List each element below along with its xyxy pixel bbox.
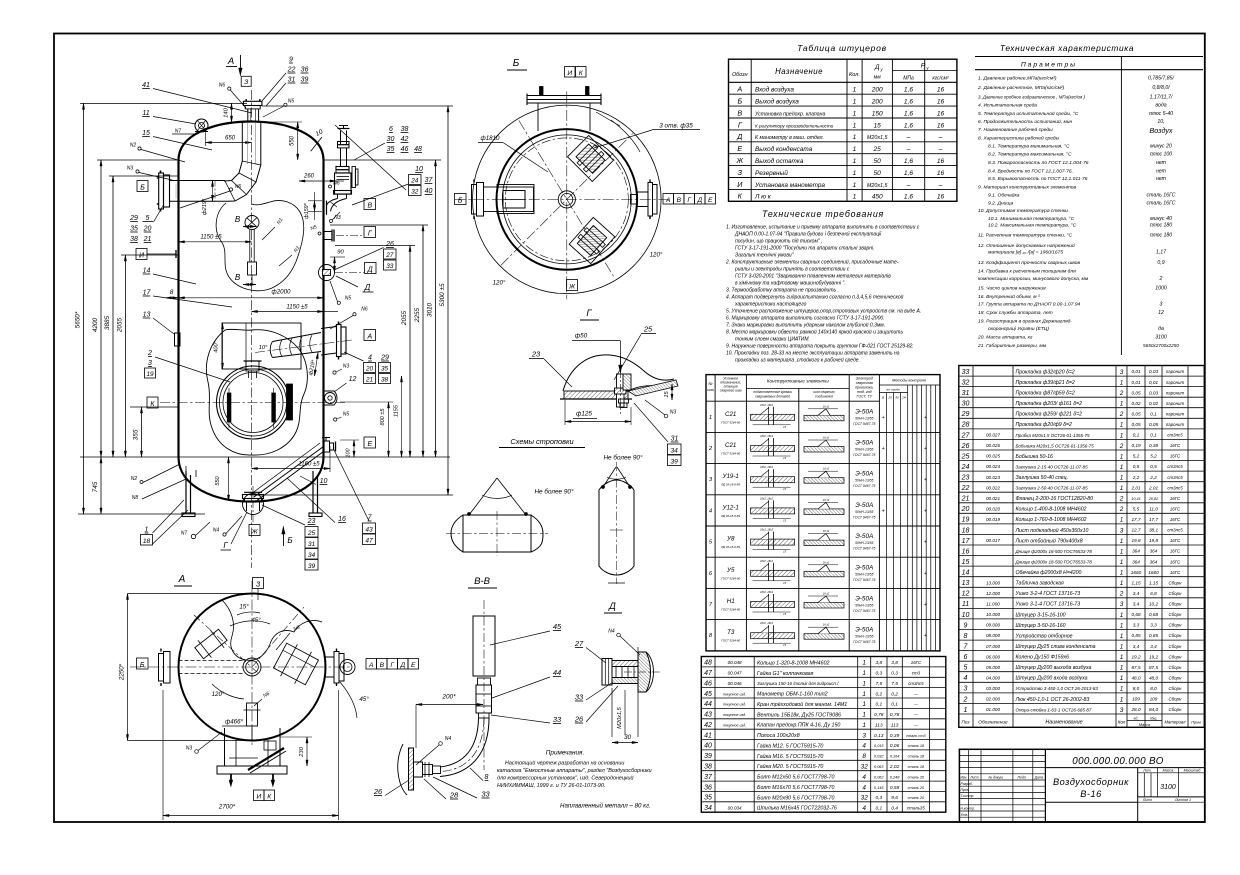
svg-text:Днище ф2000х 18-500 ГОСТ6533-: Днище ф2000х 18-500 ГОСТ6533-78	[1015, 560, 1093, 565]
svg-text:Поз: Поз	[962, 719, 971, 724]
svg-text:1: 1	[1120, 644, 1124, 651]
svg-text:Сборн: Сборн	[1169, 707, 1183, 712]
svg-text:11: 11	[962, 601, 969, 608]
svg-text:сварного шва: сварного шва	[720, 389, 742, 393]
pipe diameter Ф159	[304, 192, 322, 220]
svg-text:16±2, 16±2: 16±2, 16±2	[760, 590, 774, 594]
svg-text:Штуцер Ду25 слива конденсата: Штуцер Ду25 слива конденсата	[1016, 644, 1096, 650]
svg-text:03.000: 03.000	[986, 686, 1000, 691]
condensate pipe inside vessel	[251, 443, 324, 501]
svg-text:35: 35	[387, 146, 395, 153]
svg-text:19: 19	[146, 371, 154, 378]
svg-text:29: 29	[961, 411, 970, 418]
view А label ИК bottom	[254, 790, 275, 801]
svg-text:Схемы строповки: Схемы строповки	[510, 437, 573, 446]
svg-text:26: 26	[373, 787, 383, 796]
svg-text:Сборн: Сборн	[1169, 602, 1183, 607]
view Б label 3 отв Ф35	[594, 123, 700, 149]
svg-text:25: 25	[873, 146, 882, 153]
svg-text:27: 27	[961, 432, 971, 439]
svg-text:Э-50А: Э-50А	[855, 596, 873, 603]
svg-text:Изм: Изм	[961, 776, 968, 780]
sling scheme note upper	[603, 454, 643, 462]
deflector plate item 17	[222, 323, 301, 369]
parts list lower-left (items 34-48) grid	[701, 657, 946, 813]
svg-text:Дата: Дата	[1034, 776, 1044, 780]
svg-text:минус 40: минус 40	[1150, 216, 1172, 222]
svg-text:16ГС: 16ГС	[1170, 496, 1181, 501]
svg-text:ст3пс5: ст3пс5	[1167, 433, 1183, 438]
view Б centrelines	[455, 91, 671, 299]
technical requirements text	[725, 225, 921, 364]
svg-text:1: 1	[1120, 453, 1124, 460]
svg-text:–: –	[938, 134, 943, 141]
svg-text:3: 3	[1120, 707, 1124, 714]
svg-text:материала [в] ₂₀ /[в] = 19: материала [в] ₂₀ /[в] = 1960/1675	[988, 250, 1063, 256]
svg-text:Не более 90°: Не более 90°	[603, 454, 643, 462]
svg-text:И: И	[737, 180, 743, 189]
svg-text:2: 2	[1119, 506, 1124, 513]
svg-text:–: –	[906, 134, 911, 141]
svg-text:4: 4	[862, 774, 866, 781]
svg-text:шва: шва	[707, 388, 714, 392]
svg-text:Болт М20х90 5,6 ГОСТ7798-70: Болт М20х90 5,6 ГОСТ7798-70	[757, 795, 835, 801]
svg-text:28,0: 28,0	[1130, 707, 1141, 712]
svg-text:ст3пс5: ст3пс5	[1167, 475, 1183, 480]
svg-text:—: —	[913, 712, 919, 717]
svg-text:ГОСТ 5264-80: ГОСТ 5264-80	[721, 452, 740, 456]
svg-text:25: 25	[887, 396, 892, 400]
svg-text:С21: С21	[725, 411, 736, 418]
manometer symbol inside	[245, 216, 259, 285]
svg-text:44: 44	[553, 668, 561, 677]
svg-text:0,85: 0,85	[1149, 633, 1159, 638]
svg-text:0,03: 0,03	[1149, 390, 1159, 395]
view Б safety valve nozzle rotated	[568, 136, 614, 182]
svg-text:паронит: паронит	[1166, 411, 1185, 416]
svg-text:33: 33	[481, 790, 490, 799]
svg-text:ф466*: ф466*	[225, 719, 243, 726]
svg-text:плюс 100: плюс 100	[1150, 152, 1172, 158]
svg-text:Болт М12х50 5,6 ГОСТ7798-70: Болт М12х50 5,6 ГОСТ7798-70	[757, 775, 835, 781]
svg-text:Кольцо 1-400-8-1008 МН4602: Кольцо 1-400-8-1008 МН4602	[1016, 507, 1087, 513]
svg-text:16: 16	[962, 548, 970, 555]
svg-text:3100: 3100	[1160, 784, 1176, 791]
svg-text:1: 1	[862, 691, 866, 698]
svg-text:Ушко 3-2-4 ГОСТ 13716-73: Ушко 3-2-4 ГОСТ 13716-73	[1016, 591, 1081, 597]
svg-text:1: 1	[862, 722, 866, 729]
svg-text:0,1: 0,1	[891, 702, 898, 708]
view А wavy section через manhole	[222, 600, 322, 660]
manhole К reinforcing pad wavy outline	[206, 329, 307, 455]
svg-text:3010: 3010	[427, 302, 434, 317]
svg-text:50НН-13/55: 50НН-13/55	[855, 635, 873, 639]
svg-text:+: +	[924, 602, 927, 608]
svg-text:+: +	[882, 415, 885, 421]
svg-text:11. Расчетная температура стен: 11. Расчетная температура стенки, °С	[978, 233, 1072, 239]
svg-text:2055: 2055	[401, 310, 408, 326]
svg-text:каталога "Емкостные аппараты",: каталога "Емкостные аппараты", раздел "В…	[497, 768, 652, 774]
inlet nozzle А front view	[270, 322, 346, 360]
svg-text:ГОСТ 9467-75: ГОСТ 9467-75	[853, 453, 875, 457]
svg-text:Назначение: Назначение	[775, 67, 823, 76]
svg-text:0,063: 0,063	[874, 765, 884, 769]
svg-text:Манометр ОБМ-1-160 тип2: Манометр ОБМ-1-160 тип2	[757, 692, 828, 698]
svg-text:0,03: 0,03	[1149, 369, 1159, 374]
svg-text:1: 1	[1120, 538, 1124, 545]
svg-text:16: 16	[937, 170, 945, 177]
svg-text:9: 9	[964, 622, 968, 629]
detail Г dimension 15 and mark N3	[645, 384, 676, 418]
view Б arc arrow upper right	[596, 112, 640, 152]
svg-text:Кол.: Кол.	[849, 72, 860, 78]
svg-text:87,5: 87,5	[1131, 665, 1141, 670]
svg-text:00.025: 00.025	[986, 454, 1000, 459]
svg-text:ф125: ф125	[576, 411, 592, 418]
svg-text:1: 1	[1120, 612, 1124, 619]
svg-text:46: 46	[704, 681, 712, 688]
nozzle Е valve outside shell	[322, 437, 336, 452]
svg-text:25: 25	[643, 325, 653, 334]
view В-В flange and fitting at wall	[398, 744, 441, 795]
svg-text:3 отв. ф35: 3 отв. ф35	[659, 123, 693, 130]
dimension 5650 overall height	[75, 103, 85, 514]
svg-text:+: +	[924, 540, 927, 546]
svg-text:Сборн: Сборн	[1169, 591, 1183, 596]
svg-text:Ж: Ж	[250, 528, 258, 535]
svg-text:ГОСТ 9467-75: ГОСТ 9467-75	[853, 515, 875, 519]
view direction В lower	[235, 273, 256, 286]
svg-text:–: –	[938, 146, 943, 153]
svg-text:50НН-13/55: 50НН-13/55	[855, 510, 873, 514]
svg-text:15: 15	[664, 391, 670, 398]
svg-text:ГОСТ 9467-75: ГОСТ 9467-75	[853, 422, 875, 426]
dimension 550 dome height	[262, 122, 302, 160]
svg-text:Гайка М16. 5 ГОСТ5915-70: Гайка М16. 5 ГОСТ5915-70	[757, 753, 823, 760]
weld metal note	[560, 803, 651, 810]
svg-text:0,015: 0,015	[874, 744, 884, 748]
svg-text:Установка манометра: Установка манометра	[754, 182, 825, 189]
svg-text:32: 32	[411, 188, 419, 195]
svg-text:16. Внутренний объем, м ³: 16. Внутренний объем, м ³	[978, 293, 1040, 300]
svg-text:35: 35	[704, 795, 712, 802]
view Б angle labels 120	[493, 252, 663, 287]
svg-text:11,0: 11,0	[1149, 507, 1158, 512]
svg-text:200*: 200*	[441, 694, 456, 701]
svg-text:35: 35	[381, 365, 389, 372]
svg-text:2: 2	[1159, 276, 1163, 282]
svg-text:9.1. Обечайка: 9.1. Обечайка	[988, 191, 1020, 198]
svg-text:паронит: паронит	[1166, 401, 1185, 406]
svg-text:ст3пс5: ст3пс5	[908, 681, 924, 686]
svg-text:вода: вода	[1155, 103, 1166, 109]
svg-text:+: +	[882, 446, 885, 452]
svg-text:В: В	[367, 202, 372, 209]
svg-text:2: 2	[1119, 496, 1124, 503]
svg-text:ГОСТ 5264-80: ГОСТ 5264-80	[721, 576, 740, 580]
svg-text:0,4: 0,4	[891, 806, 898, 812]
svg-text:5,2: 5,2	[1150, 454, 1157, 459]
surface mark N6 top	[219, 83, 246, 109]
svg-text:43: 43	[704, 712, 712, 719]
svg-text:16ГС: 16ГС	[911, 660, 922, 665]
label box З top	[241, 76, 251, 86]
svg-text:36: 36	[704, 784, 712, 791]
title block document number	[1072, 756, 1164, 767]
svg-text:16±2, 16±2: 16±2, 16±2	[760, 434, 774, 438]
svg-text:0,1: 0,1	[875, 806, 882, 812]
svg-text:2. Конструктивные элементы сва: 2. Конструктивные элементы сварных соеди…	[725, 259, 899, 266]
svg-text:84,0: 84,0	[1149, 707, 1159, 712]
view А shell circle	[179, 594, 326, 741]
svg-text:сталь 16ГС: сталь 16ГС	[1147, 192, 1176, 198]
svg-text:сталь 18: сталь 18	[908, 755, 925, 759]
svg-text:38: 38	[704, 764, 712, 771]
view Б outer sling circle	[473, 105, 662, 294]
label Ж box and Г view arrow bottom	[221, 512, 293, 550]
svg-text:1: 1	[853, 182, 857, 189]
svg-text:05.000: 05.000	[986, 665, 1000, 670]
svg-text:0,19: 0,19	[1131, 443, 1141, 448]
vessel centreline	[251, 90, 253, 568]
svg-text:17,7: 17,7	[1149, 517, 1159, 522]
svg-text:Бобышка М20х1,5 ОСТ26-01-1356-: Бобышка М20х1,5 ОСТ26-01-1356-75	[1016, 443, 1095, 448]
svg-text:0,1: 0,1	[1150, 433, 1157, 438]
svg-text:Сборн: Сборн	[1169, 697, 1183, 702]
dimension 355	[130, 407, 179, 457]
callout 26 27 33 stack	[334, 241, 396, 270]
detail Г callout 25	[614, 325, 656, 381]
svg-text:21: 21	[961, 496, 970, 503]
svg-text:5. Температура испытательной с: 5. Температура испытательной среды, °С	[978, 110, 1079, 117]
svg-text:21. Габаритные размеры, мм: 21. Габаритные размеры, мм	[977, 343, 1047, 349]
pipe diameter Ф219 nozzle Б	[202, 181, 214, 216]
svg-text:00.023: 00.023	[986, 475, 1000, 480]
svg-text:N4: N4	[608, 629, 615, 635]
svg-text:9.2. Днища: 9.2. Днища	[988, 200, 1014, 206]
svg-text:1,6: 1,6	[904, 170, 913, 177]
svg-text:покупное изд.: покупное изд.	[723, 703, 746, 707]
detail Г dome section shape	[560, 355, 678, 399]
svg-text:1: 1	[964, 707, 968, 714]
svg-text:36: 36	[301, 67, 309, 74]
svg-text:минус 20: минус 20	[1150, 143, 1172, 149]
svg-text:48: 48	[704, 660, 712, 667]
svg-text:06.000: 06.000	[986, 654, 1000, 659]
dimension 2255	[414, 225, 424, 457]
svg-text:10,2: 10,2	[1149, 602, 1159, 607]
svg-text:0,164: 0,164	[890, 755, 900, 759]
svg-text:паронит: паронит	[1166, 369, 1185, 374]
svg-text:1150 ±5: 1150 ±5	[286, 305, 308, 311]
svg-text:16ГС: 16ГС	[1170, 443, 1181, 448]
svg-text:Д: Д	[608, 601, 616, 612]
svg-text:нтд, год: нтд, год	[857, 390, 872, 394]
svg-text:50НН-13/55: 50НН-13/55	[855, 541, 873, 545]
svg-text:1000: 1000	[1155, 286, 1167, 292]
svg-text:1: 1	[853, 194, 857, 201]
svg-text:0,5: 0,5	[1133, 464, 1140, 469]
svg-text:1: 1	[862, 681, 866, 688]
svg-text:Ж: Ж	[736, 156, 744, 165]
svg-text:Э-50А: Э-50А	[855, 564, 873, 571]
view Б bottom label Ж	[567, 280, 578, 291]
svg-text:0,05: 0,05	[1131, 422, 1141, 427]
svg-text:1660: 1660	[1148, 570, 1159, 575]
surface mark N2 left upper	[130, 143, 185, 163]
svg-text:6: 6	[389, 126, 393, 133]
svg-text:00.019: 00.019	[986, 517, 1000, 522]
svg-text:1: 1	[853, 99, 857, 106]
svg-text:Таблица штуцеров: Таблица штуцеров	[797, 43, 887, 53]
svg-text:Г: Г	[390, 662, 394, 669]
svg-text:N6: N6	[361, 307, 368, 313]
svg-text:16: 16	[937, 87, 945, 94]
svg-text:Сборн: Сборн	[1169, 623, 1183, 628]
svg-text:Э-50А: Э-50А	[855, 408, 873, 415]
svg-text:N5: N5	[345, 296, 352, 302]
svg-text:16: 16	[338, 516, 346, 523]
svg-text:Пробка М20х1,5 ОСТ26-01-1355-7: Пробка М20х1,5 ОСТ26-01-1355-75	[1016, 433, 1091, 438]
svg-text:Гайка М20. 5 ГОСТ5915-70: Гайка М20. 5 ГОСТ5915-70	[757, 763, 823, 770]
svg-text:Электрод: Электрод	[856, 377, 873, 381]
svg-text:32: 32	[861, 795, 869, 802]
svg-text:Штуцер Ду200 выхода воздуха: Штуцер Ду200 выхода воздуха	[1016, 665, 1092, 671]
svg-text:7,5: 7,5	[875, 681, 882, 687]
svg-text:3,8: 3,8	[875, 660, 882, 666]
svg-text:сталь 20: сталь 20	[908, 796, 925, 800]
view Б left nozzle Б	[455, 180, 535, 220]
svg-text:Выход остатка: Выход остатка	[755, 157, 804, 165]
svg-text:—: —	[913, 723, 919, 728]
svg-text:N7: N7	[181, 531, 188, 537]
view А support base plates	[217, 728, 287, 787]
svg-text:Сборн: Сборн	[1169, 633, 1183, 638]
dimension 1150 upper	[179, 235, 252, 243]
svg-text:3. Термообработку аппарата не: 3. Термообработку аппарата не производит…	[726, 288, 839, 294]
svg-text:Загальні технічні умови": Загальні технічні умови"	[735, 253, 794, 259]
svg-text:2. Давление расчетное, МПа(кгс: 2. Давление расчетное, МПа(кгс/см²)	[977, 85, 1065, 91]
svg-text:охоронпраці України (ЕТЦ): охоронпраці України (ЕТЦ)	[988, 326, 1049, 332]
svg-text:3,3: 3,3	[1133, 623, 1140, 628]
svg-text:8,0: 8,0	[1150, 686, 1157, 691]
svg-text:39: 39	[308, 563, 316, 570]
svg-text:N8: N8	[132, 495, 139, 501]
detail Г callout stack 31 34 39	[634, 403, 681, 466]
nameplate item 13 on shell	[175, 333, 181, 346]
svg-text:08.000: 08.000	[986, 633, 1000, 638]
svg-text:Ж: Ж	[568, 283, 576, 290]
svg-text:Б: Б	[140, 662, 145, 669]
svg-text:1: 1	[1120, 432, 1124, 439]
svg-text:8: 8	[485, 774, 489, 781]
svg-text:10. Прокладки поз. 28-33 на м: 10. Прокладки поз. 28-33 на месте эксплу…	[726, 351, 900, 357]
svg-text:2250*: 2250*	[119, 663, 126, 681]
svg-text:N2: N2	[131, 476, 138, 482]
surface marks N2 N8 N7 N4 bottom	[131, 464, 242, 539]
svg-text:Б: Б	[458, 197, 463, 204]
svg-text:32: 32	[962, 380, 970, 387]
svg-text:В: В	[235, 273, 241, 282]
svg-text:5,2: 5,2	[1133, 454, 1140, 459]
svg-text:16: 16	[937, 158, 945, 165]
svg-text:В: В	[235, 215, 241, 224]
detail Г title	[580, 308, 599, 320]
svg-text:230: 230	[299, 746, 305, 757]
svg-text:М20х1,5: М20х1,5	[867, 135, 889, 141]
svg-text:компенсации коррозии, минусово: компенсации коррозии, минусового допуска…	[978, 276, 1089, 282]
svg-text:1: 1	[1120, 622, 1124, 629]
svg-text:1: 1	[853, 146, 857, 153]
svg-text:19: 19	[962, 517, 970, 524]
svg-text:150: 150	[872, 110, 883, 117]
svg-text:15: 15	[142, 130, 150, 137]
svg-text:12: 12	[1158, 310, 1164, 316]
svg-text:N7: N7	[175, 129, 182, 135]
svg-text:Полоса 100х20х8: Полоса 100х20х8	[757, 733, 800, 739]
svg-text:2: 2	[1119, 411, 1124, 418]
svg-text:19. Регистрация в органах Держ: 19. Регистрация в органах Держнагляд-	[978, 318, 1072, 324]
svg-text:ГОСТ 9467-75: ГОСТ 9467-75	[853, 609, 875, 613]
svg-text:260: 260	[303, 174, 315, 180]
svg-text:1,17: 1,17	[1156, 250, 1167, 256]
svg-text:ф2000: ф2000	[272, 289, 291, 296]
svg-text:РД 26-18-8-89: РД 26-18-8-89	[721, 514, 740, 518]
svg-text:40: 40	[704, 743, 712, 750]
svg-text:ст3пс5: ст3пс5	[1167, 528, 1183, 533]
svg-text:1,6: 1,6	[904, 122, 913, 129]
svg-text:15: 15	[874, 122, 882, 129]
svg-text:20: 20	[961, 506, 970, 513]
svg-text:паронит: паронит	[1166, 380, 1185, 385]
svg-text:N3: N3	[670, 410, 677, 416]
svg-text:0,38: 0,38	[1149, 443, 1159, 448]
svg-text:6,8: 6,8	[1150, 591, 1157, 596]
svg-text:1: 1	[1120, 401, 1124, 408]
svg-text:28: 28	[449, 791, 459, 800]
svg-text:ф50: ф50	[575, 333, 588, 340]
callout 16 bottom dome leader	[287, 478, 346, 523]
parts list right rows text	[961, 369, 1185, 714]
svg-text:8: 8	[862, 753, 866, 760]
svg-text:1: 1	[862, 660, 866, 667]
svg-text:16ГС: 16ГС	[1170, 517, 1181, 522]
svg-text:Заглушка 150-16 /тольk для г: Заглушка 150-16 /тольk для гидроисп./	[757, 681, 839, 686]
svg-text:113: 113	[875, 723, 883, 729]
notes (Примечания) text	[497, 750, 652, 790]
svg-text:1: 1	[853, 122, 857, 129]
svg-text:1,6: 1,6	[904, 87, 913, 94]
view В-В dimension 200	[416, 694, 483, 749]
svg-text:5650х2700х2250: 5650х2700х2250	[1143, 343, 1179, 348]
svg-text:0,5: 0,5	[1150, 464, 1157, 469]
svg-text:Кол: Кол	[1118, 719, 1126, 724]
svg-text:48: 48	[414, 146, 422, 153]
svg-text:29: 29	[129, 215, 138, 222]
label box З above view А	[253, 578, 264, 601]
svg-text:364: 364	[1150, 559, 1158, 564]
svg-text:00.047: 00.047	[728, 671, 742, 676]
svg-text:39: 39	[301, 77, 309, 84]
svg-text:Воздухосборник: Воздухосборник	[1053, 777, 1129, 787]
svg-text:Днище ф2000х 18-500 ГОСТ6533-: Днище ф2000х 18-500 ГОСТ6533-78	[1015, 549, 1093, 554]
front view section arrow A	[226, 55, 242, 76]
svg-text:01.000: 01.000	[986, 707, 1000, 712]
parts list lower-left rows text	[704, 660, 926, 812]
svg-text:сварочная: сварочная	[856, 381, 873, 385]
svg-text:+: +	[882, 508, 885, 514]
sling scheme vertical vessel	[599, 462, 634, 584]
